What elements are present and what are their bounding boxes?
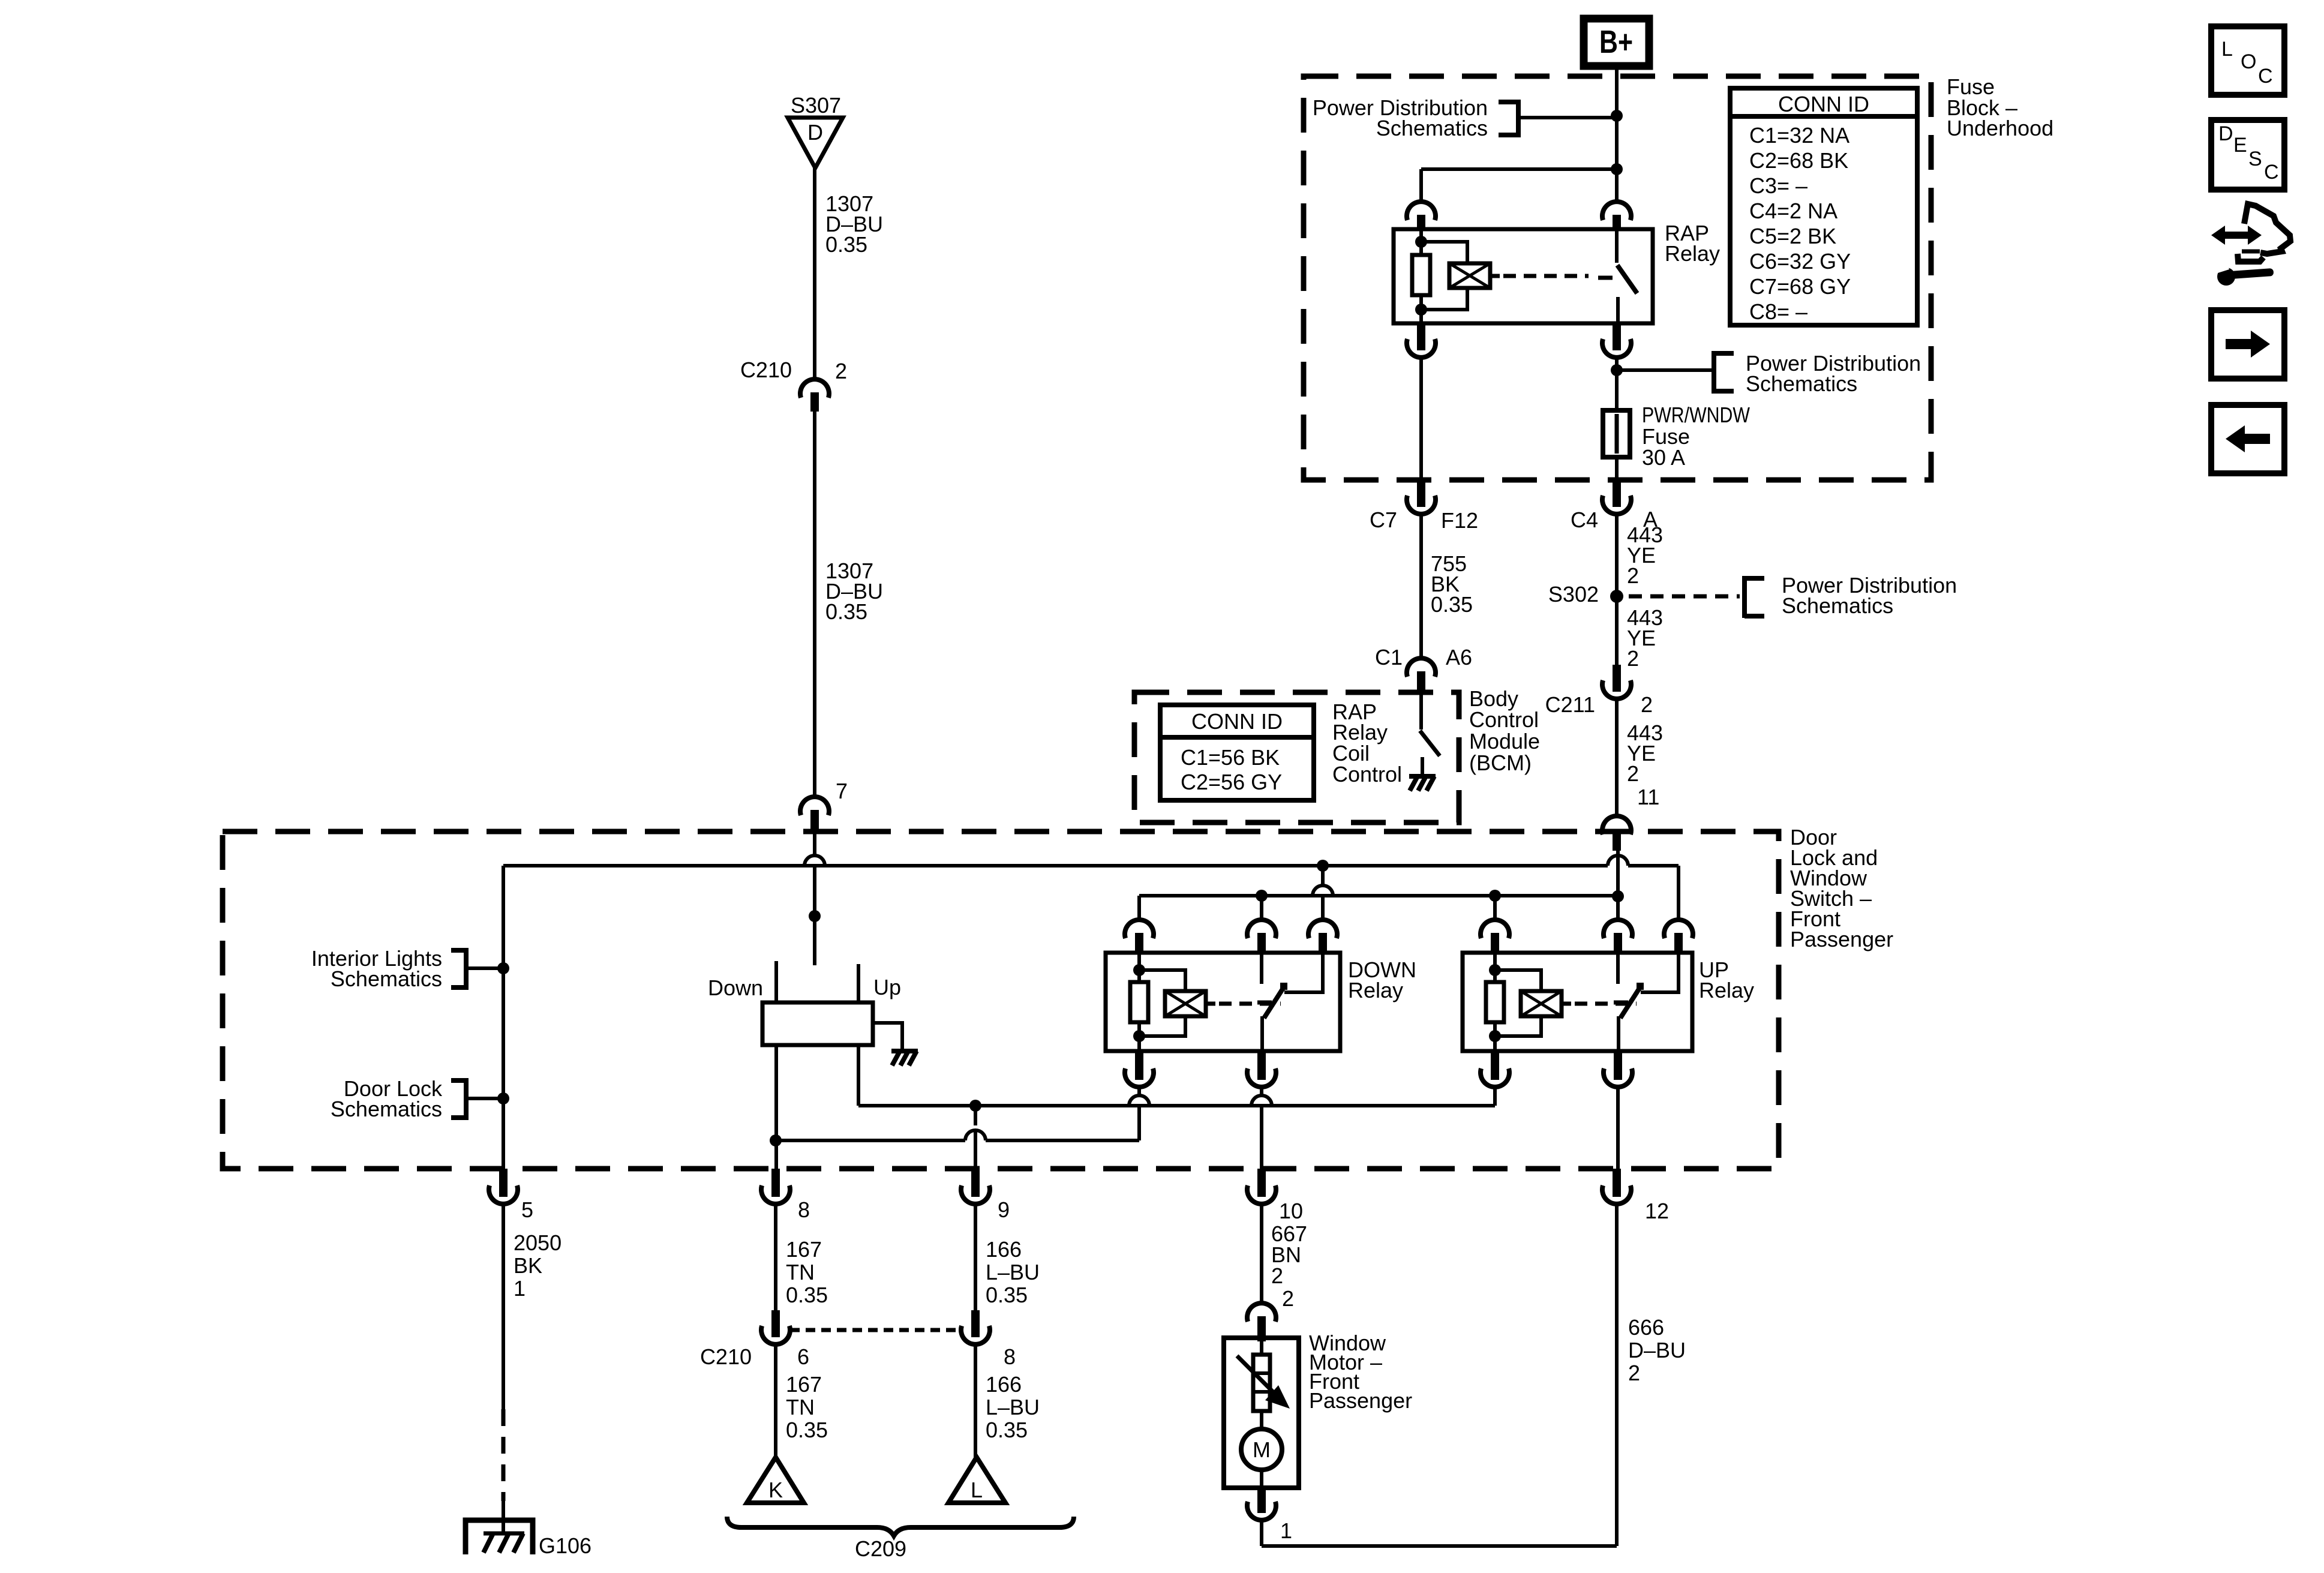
svg-text:166: 166 xyxy=(986,1237,1022,1262)
DOWN coil branch bottom xyxy=(1139,1016,1185,1036)
svg-text:Schematics: Schematics xyxy=(1746,371,1857,396)
DOWN relay contact leg upper xyxy=(1260,896,1263,921)
DOWN coil bottom wire xyxy=(1137,1087,1141,1096)
connector C4/A xyxy=(1613,481,1621,507)
junction Down wire / down-relay coil line xyxy=(770,1134,782,1146)
UP coil tail xyxy=(1562,1002,1571,1006)
svg-text:2: 2 xyxy=(1282,1286,1294,1311)
svg-text:0.35: 0.35 xyxy=(825,599,867,624)
RAP switch arm xyxy=(1617,265,1637,293)
DOWN relay contact connector xyxy=(1247,920,1276,938)
svg-text:Control: Control xyxy=(1469,707,1539,732)
svg-text:B+: B+ xyxy=(1599,24,1633,60)
UP relay contact connector xyxy=(1604,920,1632,938)
line 1 corner down to UP relay arm xyxy=(1677,866,1680,921)
connector triangle K xyxy=(747,1457,804,1503)
RAP coil leg inside xyxy=(1419,229,1423,255)
motor M circle xyxy=(1241,1429,1282,1470)
DOWN coil leg inside xyxy=(1137,953,1141,982)
UP arm pivot to bottom xyxy=(1617,1016,1620,1051)
bus line 2 (443 feed) xyxy=(1139,894,1618,897)
svg-text:10: 10 xyxy=(1279,1199,1303,1223)
switch ground link xyxy=(873,1023,902,1049)
connector pin 7 at switch box edge xyxy=(800,797,829,815)
svg-text:C211: C211 xyxy=(1545,692,1595,717)
link to PD bracket 2 xyxy=(1617,368,1714,372)
junction line2 / DOWN relay contact xyxy=(1256,890,1268,902)
RAP relay switch-top connector xyxy=(1602,202,1631,220)
wire 1307 upper segment xyxy=(813,168,816,380)
svg-text:30 A: 30 A xyxy=(1642,445,1685,470)
connector pin 8 xyxy=(771,1169,780,1197)
icon box arrow right xyxy=(2211,310,2284,379)
wire RAP coil to C7 xyxy=(1419,358,1423,480)
svg-text:TN: TN xyxy=(786,1395,815,1419)
coil RAP relay xyxy=(1449,263,1490,288)
ground at switch xyxy=(891,1051,918,1065)
junction line2 / pin 11 wire xyxy=(1612,890,1624,902)
junction DOWN resistor top xyxy=(1133,964,1145,976)
BCM ground stub xyxy=(1421,757,1424,775)
pin9 hop over down-coil line xyxy=(965,1130,986,1140)
relay UP box xyxy=(1463,953,1692,1051)
svg-text:F12: F12 xyxy=(1441,508,1478,533)
UP arm to right leg xyxy=(1641,953,1679,992)
connector pin 11 xyxy=(1602,816,1631,834)
svg-text:O: O xyxy=(2241,50,2256,73)
svg-text:C8= –: C8= – xyxy=(1749,299,1807,324)
svg-text:8: 8 xyxy=(798,1197,810,1222)
wire bottom return xyxy=(1262,1544,1617,1548)
resistor DOWN relay coil xyxy=(1130,982,1148,1022)
DOWN arm to right leg xyxy=(1284,953,1323,992)
RAP actuator dashed link xyxy=(1503,274,1589,278)
bus line 1 right part xyxy=(1628,864,1679,867)
connector triangle S307/D xyxy=(788,118,843,168)
DOWN relay arm leg upper xyxy=(1321,866,1325,885)
RAP relay coil-top connector xyxy=(1407,202,1436,220)
svg-text:S: S xyxy=(2248,148,2262,170)
svg-text:Relay: Relay xyxy=(1699,978,1754,1002)
RAP coil branch top xyxy=(1421,242,1467,263)
svg-text:D: D xyxy=(2218,122,2233,145)
svg-text:Relay: Relay xyxy=(1665,241,1720,266)
RAP fixed contact xyxy=(1615,229,1619,263)
svg-text:C: C xyxy=(2258,65,2273,88)
svg-text:D: D xyxy=(807,120,823,145)
svg-text:C4: C4 xyxy=(1571,508,1598,532)
window motor box xyxy=(1224,1338,1299,1488)
svg-text:0.35: 0.35 xyxy=(986,1418,1028,1442)
wire 667 BN xyxy=(1260,1205,1263,1303)
svg-text:0.35: 0.35 xyxy=(786,1283,828,1307)
svg-text:C: C xyxy=(2264,161,2279,184)
junction up-line / pin 9 wire xyxy=(969,1100,981,1112)
junction on pin7 wire xyxy=(809,910,821,922)
svg-text:C1=32 NA: C1=32 NA xyxy=(1749,123,1849,148)
connector motor pin 1 xyxy=(1257,1488,1266,1513)
svg-text:D–BU: D–BU xyxy=(1628,1338,1686,1362)
splice S302 xyxy=(1610,590,1623,603)
svg-text:9: 9 xyxy=(998,1197,1010,1222)
svg-text:167: 167 xyxy=(786,1237,822,1262)
UP switch-common connector xyxy=(1614,1052,1622,1080)
svg-text:2050: 2050 xyxy=(514,1230,562,1255)
wire interior-lights branch xyxy=(502,866,505,1169)
svg-text:C2=68 BK: C2=68 BK xyxy=(1749,148,1848,173)
svg-text:C2=56 GY: C2=56 GY xyxy=(1181,770,1282,794)
DOWN coil branch top xyxy=(1139,970,1185,991)
line 1 hop over pin 11 wire xyxy=(1608,855,1628,866)
svg-text:S302: S302 xyxy=(1548,582,1599,607)
connector C7/F12 xyxy=(1417,481,1425,507)
wire 2050 dashed part xyxy=(502,1409,506,1501)
dashed link S302 to PD xyxy=(1629,595,1740,599)
svg-text:Schematics: Schematics xyxy=(1782,593,1893,618)
UP coil leg inside xyxy=(1493,953,1497,982)
svg-text:C1: C1 xyxy=(1375,645,1403,670)
svg-text:Schematics: Schematics xyxy=(1376,116,1488,140)
window switch body xyxy=(762,1002,873,1045)
line 2 corner down to DOWN coil xyxy=(1137,896,1141,921)
RAP coil-bottom connector xyxy=(1417,325,1425,350)
wire 1307 lower segment xyxy=(813,412,816,798)
wire DOWN coil to Down switch, right of hop xyxy=(986,1139,1139,1142)
svg-text:CONN ID: CONN ID xyxy=(1778,92,1869,116)
hop over up-line xyxy=(1129,1095,1149,1106)
UP coil-bottom connector xyxy=(1491,1052,1499,1080)
wire 166 lower xyxy=(974,1345,977,1457)
motor internal wire top xyxy=(1260,1338,1263,1355)
svg-text:C7: C7 xyxy=(1370,508,1397,532)
DOWN contact tick xyxy=(1257,1001,1272,1005)
DOWN coil-bottom connector xyxy=(1135,1052,1143,1080)
svg-text:2: 2 xyxy=(1628,1361,1640,1385)
wire DOWN coil to Down switch, left of hop xyxy=(776,1139,965,1142)
bracket Door Lock Schematics xyxy=(464,1078,469,1120)
svg-text:0.35: 0.35 xyxy=(825,232,867,257)
icon box arrow left xyxy=(2211,405,2284,473)
svg-text:0.35: 0.35 xyxy=(786,1418,828,1442)
svg-text:2: 2 xyxy=(1627,563,1639,588)
power feed B+ box xyxy=(1584,19,1649,66)
pin 11 wire lower (through hop and line2 dot) xyxy=(1616,851,1620,921)
svg-text:C7=68 GY: C7=68 GY xyxy=(1749,274,1851,299)
bracket Power Distribution (S302) xyxy=(1742,576,1747,618)
wire 2050 BK solid part xyxy=(502,1205,505,1409)
junction UP resistor bottom xyxy=(1489,1030,1501,1042)
UP common to pin 12 xyxy=(1616,1087,1620,1169)
svg-text:8: 8 xyxy=(1004,1344,1016,1369)
wire 443 to pin 11 xyxy=(1615,699,1619,816)
icon animal head with double arrow and wrench xyxy=(2211,226,2262,245)
svg-text:TN: TN xyxy=(786,1260,815,1284)
DOWN switch-common connector xyxy=(1257,1052,1266,1080)
dashed box Fuse Block - Underhood xyxy=(1304,76,1931,480)
svg-text:2: 2 xyxy=(835,359,847,383)
UP contact tick xyxy=(1614,1001,1628,1005)
arm leg hop over line 2 xyxy=(1313,885,1333,896)
motor internal wire mid xyxy=(1260,1411,1263,1429)
connector C210 pin 8 xyxy=(971,1310,980,1337)
wire into G106 xyxy=(502,1501,505,1533)
bracket Power Distribution (top) xyxy=(1516,100,1521,137)
bus line 1 (motor feed) left part xyxy=(503,864,1608,867)
svg-text:166: 166 xyxy=(986,1372,1022,1397)
wire pin7 to switch xyxy=(813,834,816,855)
wire 755 BK xyxy=(1419,515,1423,658)
wire branch to RAP coil xyxy=(1421,167,1617,171)
BCM driver switch arm xyxy=(1420,731,1440,756)
UP relay coil leg upper xyxy=(1493,896,1497,921)
svg-text:L–BU: L–BU xyxy=(986,1260,1040,1284)
svg-text:C5=2 BK: C5=2 BK xyxy=(1749,224,1836,248)
RAP coil tail xyxy=(1490,274,1500,278)
svg-text:Underhood: Underhood xyxy=(1947,116,2053,140)
wire Down to pin 8 xyxy=(774,1045,778,1169)
motor internal wire bottom xyxy=(1260,1470,1263,1488)
relay DOWN box xyxy=(1106,953,1340,1051)
svg-text:E: E xyxy=(2233,134,2247,157)
svg-text:5: 5 xyxy=(521,1197,533,1222)
wire 167 lower xyxy=(774,1345,777,1457)
svg-text:Relay: Relay xyxy=(1348,978,1403,1002)
svg-text:G106: G106 xyxy=(539,1533,591,1558)
junction line2 / UP relay coil xyxy=(1489,890,1501,902)
svg-text:L: L xyxy=(971,1478,983,1502)
svg-text:C210: C210 xyxy=(700,1344,752,1369)
wire motor pin1 down xyxy=(1260,1521,1263,1546)
svg-text:C4=2 NA: C4=2 NA xyxy=(1749,199,1837,223)
svg-text:Module: Module xyxy=(1469,729,1540,754)
DOWN common bottom wire xyxy=(1260,1087,1263,1096)
junction interior lights tap xyxy=(497,962,509,974)
table CONN ID (fuse block) xyxy=(1730,88,1917,325)
svg-text:M: M xyxy=(1253,1437,1271,1462)
junction B+ / relay coil branch xyxy=(1611,163,1623,175)
svg-text:167: 167 xyxy=(786,1372,822,1397)
svg-text:CONN ID: CONN ID xyxy=(1191,709,1283,734)
dashed tie C210 xyxy=(790,1328,961,1332)
dashed box Door Lock and Window Switch - Front Passenger xyxy=(223,831,1779,1169)
svg-text:1: 1 xyxy=(1280,1518,1292,1543)
wire 166 upper xyxy=(974,1205,977,1310)
junction UP resistor top xyxy=(1489,964,1501,976)
svg-text:Passenger: Passenger xyxy=(1790,927,1893,951)
coil DOWN relay xyxy=(1165,991,1206,1016)
svg-text:C3= –: C3= – xyxy=(1749,173,1807,198)
icon box DESC xyxy=(2211,120,2284,190)
svg-text:0.35: 0.35 xyxy=(1431,592,1473,617)
svg-text:C1=56 BK: C1=56 BK xyxy=(1181,745,1280,770)
UP relay coil-top connector xyxy=(1481,920,1509,938)
wire 443 YE with S302 xyxy=(1615,515,1619,665)
wire Up to up-line xyxy=(857,1045,860,1106)
connector pin 12 xyxy=(1613,1169,1621,1197)
wire B+ down xyxy=(1615,66,1619,203)
junction line1 / DOWN relay arm xyxy=(1317,860,1329,872)
junction B+ / PD tap xyxy=(1611,110,1623,122)
icon box LOC xyxy=(2211,26,2284,95)
svg-text:A6: A6 xyxy=(1446,645,1472,670)
DOWN relay arm connector xyxy=(1308,920,1337,938)
svg-text:L: L xyxy=(2221,38,2233,61)
UP relay arm connector xyxy=(1664,920,1693,938)
junction PD tap below relay xyxy=(1611,364,1623,376)
brace C209 xyxy=(727,1517,1074,1536)
svg-text:666: 666 xyxy=(1628,1315,1664,1340)
connector triangle L xyxy=(948,1457,1005,1503)
svg-text:(BCM): (BCM) xyxy=(1469,751,1532,775)
DOWN fixed contact xyxy=(1260,953,1263,984)
bracket Interior Lights Schematics xyxy=(464,948,469,990)
switch Up stub xyxy=(857,964,860,1002)
thermal arrow shaft xyxy=(1237,1356,1274,1393)
connector pin 10 xyxy=(1257,1169,1266,1197)
svg-text:Schematics: Schematics xyxy=(331,966,442,991)
connector pin 5 xyxy=(499,1169,508,1197)
up-line from switch Up to UP coil xyxy=(858,1104,1495,1107)
DOWN relay coil-top connector xyxy=(1125,920,1154,938)
pin 9 wire through hop xyxy=(974,1130,977,1169)
svg-text:Schematics: Schematics xyxy=(331,1097,442,1121)
svg-text:2: 2 xyxy=(1627,761,1639,786)
svg-text:0.35: 0.35 xyxy=(986,1283,1028,1307)
UP fixed contact xyxy=(1616,953,1620,984)
connector C210 pin 6 xyxy=(771,1310,780,1337)
UP switch arm xyxy=(1620,986,1641,1018)
RAP coil branch bottom xyxy=(1421,288,1467,310)
RAP moving contact to bottom xyxy=(1616,297,1620,323)
svg-text:2: 2 xyxy=(1627,646,1639,671)
svg-text:6: 6 xyxy=(797,1344,809,1369)
DOWN coil tail xyxy=(1206,1002,1215,1006)
pin 9 wire upper xyxy=(974,1106,977,1125)
resistor RAP relay coil xyxy=(1412,255,1430,295)
svg-text:12: 12 xyxy=(1645,1199,1669,1223)
svg-text:C210: C210 xyxy=(740,358,792,382)
coil UP relay xyxy=(1521,991,1562,1016)
connector C1/A6 xyxy=(1407,658,1436,677)
svg-text:Up: Up xyxy=(873,975,901,999)
wire 167 upper xyxy=(774,1205,777,1310)
thermal arrow head xyxy=(1265,1385,1290,1409)
svg-text:7: 7 xyxy=(836,779,848,803)
svg-text:K: K xyxy=(768,1478,783,1502)
relay RAP box xyxy=(1394,229,1653,323)
bracket Power Distribution (mid) xyxy=(1712,351,1716,394)
DOWN switch arm xyxy=(1264,986,1284,1018)
UP actuator dashed link xyxy=(1575,1002,1637,1006)
svg-text:BK: BK xyxy=(514,1253,542,1278)
connector motor pin 2 xyxy=(1247,1303,1276,1322)
ground G106 symbol xyxy=(466,1520,533,1554)
UP coil branch top xyxy=(1495,970,1541,991)
DOWN actuator dashed link xyxy=(1219,1002,1281,1006)
svg-text:PWR/WNDW: PWR/WNDW xyxy=(1642,403,1750,427)
wire hop over bus line 1 xyxy=(804,855,825,866)
junction RAP resistor top xyxy=(1415,236,1427,248)
svg-text:2: 2 xyxy=(1271,1263,1283,1288)
DOWN arm pivot to bottom xyxy=(1260,1016,1264,1051)
RAP switch-bottom connector xyxy=(1613,325,1621,350)
junction RAP resistor bottom xyxy=(1415,304,1427,316)
thermal protector xyxy=(1253,1355,1270,1411)
svg-text:C209: C209 xyxy=(855,1536,906,1561)
wire 666 D-BU vertical xyxy=(1615,1203,1619,1546)
UP coil bottom wire xyxy=(1493,1087,1497,1106)
wire RAP switch to fuse xyxy=(1615,358,1619,480)
RAP contact tick xyxy=(1598,276,1613,280)
UP coil branch bottom xyxy=(1495,1016,1541,1036)
svg-text:S307: S307 xyxy=(791,93,841,118)
svg-text:C6=32 GY: C6=32 GY xyxy=(1749,249,1851,274)
connector C210 pin 2 xyxy=(800,379,829,398)
table CONN ID (BCM) xyxy=(1160,705,1314,800)
svg-text:1: 1 xyxy=(514,1276,526,1301)
svg-text:L–BU: L–BU xyxy=(986,1395,1040,1419)
connector pin 9 xyxy=(971,1169,980,1197)
junction DOWN resistor bottom xyxy=(1133,1030,1145,1042)
ground inside BCM xyxy=(1409,776,1436,791)
svg-text:Down: Down xyxy=(708,975,763,1000)
dashed box Body Control Module BCM xyxy=(1134,692,1459,822)
resistor UP relay coil xyxy=(1486,982,1504,1022)
svg-text:11: 11 xyxy=(1637,785,1659,809)
connector C211 xyxy=(1613,665,1621,692)
junction door lock tap xyxy=(497,1092,509,1104)
fuse PWR/WNDW 30A xyxy=(1603,410,1630,457)
switch Down stub xyxy=(774,961,778,1002)
svg-text:2: 2 xyxy=(1641,692,1653,717)
svg-text:Control: Control xyxy=(1332,762,1402,786)
svg-text:Passenger: Passenger xyxy=(1309,1388,1412,1413)
BCM driver wire xyxy=(1419,695,1423,730)
